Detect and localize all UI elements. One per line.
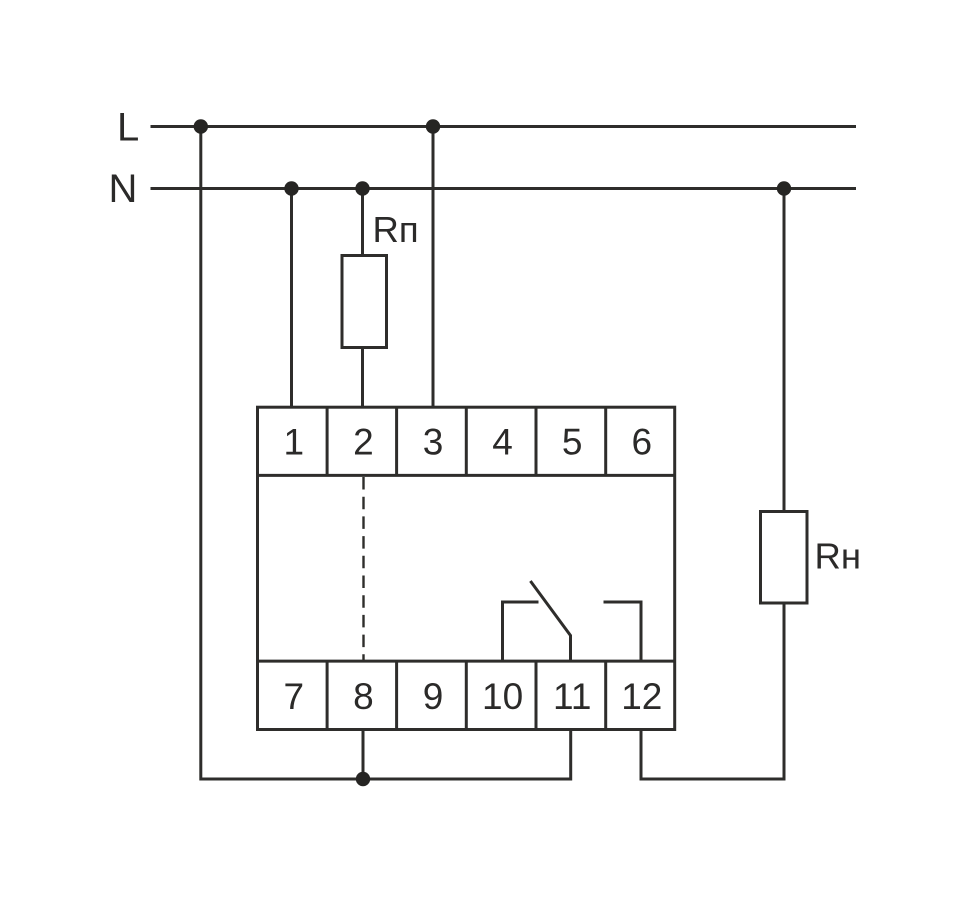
svg-text:10: 10 (482, 676, 523, 717)
svg-text:3: 3 (423, 421, 444, 462)
svg-text:L: L (117, 105, 139, 149)
svg-text:12: 12 (621, 676, 662, 717)
svg-text:2: 2 (353, 421, 374, 462)
svg-text:5: 5 (562, 421, 583, 462)
svg-text:8: 8 (353, 676, 374, 717)
svg-text:4: 4 (492, 421, 513, 462)
svg-text:11: 11 (553, 676, 591, 717)
svg-text:1: 1 (284, 421, 305, 462)
svg-text:7: 7 (284, 676, 305, 717)
svg-text:Rп: Rп (373, 209, 419, 250)
svg-text:Rн: Rн (815, 536, 862, 577)
svg-text:N: N (109, 167, 138, 211)
svg-text:9: 9 (423, 676, 444, 717)
svg-text:6: 6 (632, 421, 653, 462)
